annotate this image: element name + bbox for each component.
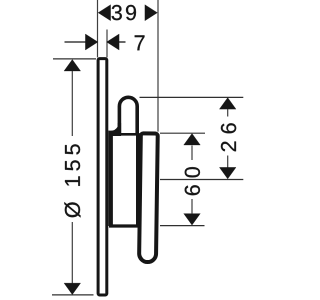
arrow left of 39 [98, 5, 111, 21]
extension line left (39 / 7 dim, plate front face) [97, 0, 99, 57]
lever left curve into base [109, 123, 122, 136]
stub upper [227, 109, 229, 117]
arrow up at handle-top line [184, 134, 201, 146]
arrow right of 39 [145, 5, 158, 21]
arrow up at lever-top line [219, 98, 236, 110]
stub upper [191, 146, 193, 161]
leader line right of 7 [119, 41, 126, 43]
extension line handle top (60 dim top) [160, 132, 205, 134]
base bottom edge (lever bottom) [109, 224, 139, 227]
label 60 (rotated) [185, 167, 200, 195]
handle (rounded-bottom body) [139, 133, 158, 262]
label 7 [135, 35, 145, 50]
arrow down at lever-bottom line [184, 214, 201, 226]
stub lower [227, 156, 229, 168]
stub lower [191, 199, 193, 214]
extension line lever top (26 dim top) [140, 96, 244, 98]
base stem (against plate) [108, 131, 113, 226]
extension line plate bottom (dia 155) [52, 294, 94, 296]
label dia 155 (rotated) [64, 144, 80, 217]
label 26 (rotated) [221, 123, 236, 151]
extension line 26 dim bottom [160, 179, 243, 181]
extension line plate rear face (7 dim) [106, 30, 108, 58]
dimension 7 [65, 34, 145, 50]
dimension dia 155 [64, 60, 81, 295]
arrow down at plate bottom [64, 283, 81, 295]
arrow pointing left at plate rear [107, 34, 120, 50]
dimension 60 [184, 134, 201, 226]
dim line lower segment [71, 222, 73, 284]
dimension 26 [219, 98, 236, 179]
leader line left of 7 [65, 41, 87, 43]
extension line right (39 dim, handle front) [157, 0, 159, 132]
dim line upper segment [71, 71, 73, 136]
base top edge [111, 133, 140, 136]
label 39 [112, 5, 136, 20]
arrow pointing right at plate front [85, 34, 98, 50]
lever (rounded-top stem) [119, 97, 137, 225]
arrow down at 26 bottom line [219, 167, 236, 179]
dimension 39 [98, 5, 157, 21]
plate (escutcheon, side view) [98, 59, 107, 295]
arrow up at plate top [64, 60, 81, 72]
extension line plate top (dia 155) [53, 58, 96, 60]
extension line lever bottom (60 dim bottom) [160, 225, 205, 227]
base block white fill [111, 133, 136, 226]
